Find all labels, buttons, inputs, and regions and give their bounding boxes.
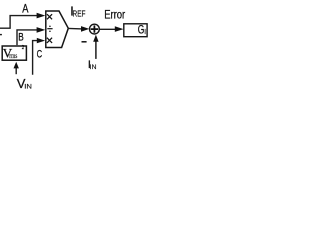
svg-text:C: C [37, 49, 43, 61]
wire Error from junction to Gi box [99, 28, 115, 30]
svg-text:A: A [22, 3, 28, 15]
arrowhead C into multiplier [37, 38, 45, 43]
wire: C riser from VIN line [33, 41, 38, 75]
svg-text:Error: Error [104, 10, 125, 22]
multiply symbol top [47, 14, 52, 19]
Gi box [124, 24, 147, 37]
arrowhead Error into Gi box [115, 26, 124, 32]
multiplier block U1 [46, 11, 69, 48]
arrowhead B into multiplier [37, 27, 46, 33]
arrowhead A into multiplier [37, 13, 46, 19]
svg-text:REF: REF [73, 10, 86, 19]
arrow VIN into Vrms2 box [15, 68, 17, 74]
multiply symbol bottom [47, 38, 52, 43]
arrowhead IREF [81, 26, 89, 32]
Vrms2 squarer box [2, 46, 26, 60]
svg-text:IN: IN [24, 83, 32, 90]
divide symbol [47, 25, 52, 32]
plus sign in junction [91, 25, 98, 32]
svg-text:IN: IN [90, 64, 97, 71]
minus label at IIN input [82, 41, 87, 43]
wire: A input step from left edge [0, 16, 38, 29]
svg-text:2: 2 [22, 44, 24, 51]
svg-text:I: I [144, 27, 146, 36]
left edge stub wire [0, 34, 2, 36]
wire: B riser from Vrms2 box top [17, 30, 38, 45]
svg-text:rms: rms [9, 52, 17, 60]
svg-text:G: G [138, 23, 145, 37]
svg-text:B: B [18, 32, 24, 44]
summing junction S1 [90, 24, 100, 34]
arrow IIN into junction [95, 42, 97, 59]
wire IREF from multiplier to summing junction [68, 27, 82, 30]
